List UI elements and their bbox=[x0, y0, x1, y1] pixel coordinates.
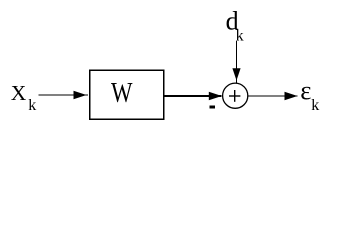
block W (filter) bbox=[90, 70, 164, 119]
svg-text:ε: ε bbox=[300, 75, 311, 105]
svg-text:W: W bbox=[111, 78, 133, 109]
minus sign at summer input bbox=[210, 106, 216, 109]
node d_k label bbox=[226, 6, 244, 44]
svg-text:k: k bbox=[28, 97, 36, 114]
summing junction circle bbox=[223, 83, 248, 108]
plus sign in summer bbox=[229, 90, 240, 102]
wire summer output arrow bbox=[248, 92, 298, 100]
wire input arrow into W bbox=[39, 91, 89, 99]
svg-text:k: k bbox=[311, 97, 319, 114]
node epsilon_k output label bbox=[300, 75, 319, 114]
svg-text:X: X bbox=[11, 81, 27, 105]
wire W output to summer bbox=[164, 92, 222, 100]
wire d_k down into summer bbox=[232, 41, 240, 83]
node X_k input label bbox=[11, 81, 37, 114]
